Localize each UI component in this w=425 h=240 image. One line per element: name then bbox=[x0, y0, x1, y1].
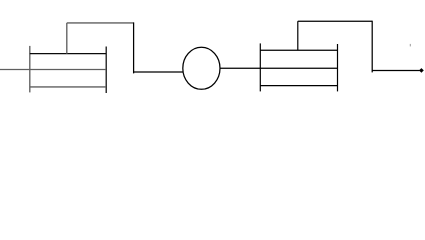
pump P1 bbox=[183, 47, 220, 89]
node: faint tick mark bbox=[409, 44, 411, 47]
heat exchanger E2 left cap bbox=[259, 43, 261, 91]
wire: pump P1 inlet bbox=[134, 71, 184, 73]
wire: pump P1 outlet and E2 middle tube line bbox=[220, 67, 338, 69]
node: diamond terminal bbox=[419, 68, 424, 73]
heat exchanger E1 left cap bbox=[29, 46, 31, 93]
wire: top horizontal run E1 to elbow bbox=[67, 22, 134, 24]
wire: vertical drop to output bbox=[371, 21, 373, 73]
heat exchanger E2 bottom tube line bbox=[260, 85, 337, 87]
heat exchanger E2 top tube line bbox=[260, 49, 337, 51]
wire: output run to terminal bbox=[372, 70, 419, 72]
wire: top horizontal run E2 to elbow bbox=[298, 20, 372, 22]
wire: E1 inlet and middle tube line bbox=[0, 69, 106, 71]
wire: vertical drop to pump inlet bbox=[133, 22, 135, 73]
heat exchanger E1 top tube line bbox=[30, 53, 106, 55]
wire: E1 top stub bbox=[66, 23, 68, 54]
heat exchanger E1 bottom tube line bbox=[30, 86, 106, 88]
wire: E2 top stub bbox=[297, 21, 299, 50]
heat exchanger E2 right cap bbox=[337, 44, 339, 91]
heat exchanger E1 right cap bbox=[105, 47, 107, 94]
